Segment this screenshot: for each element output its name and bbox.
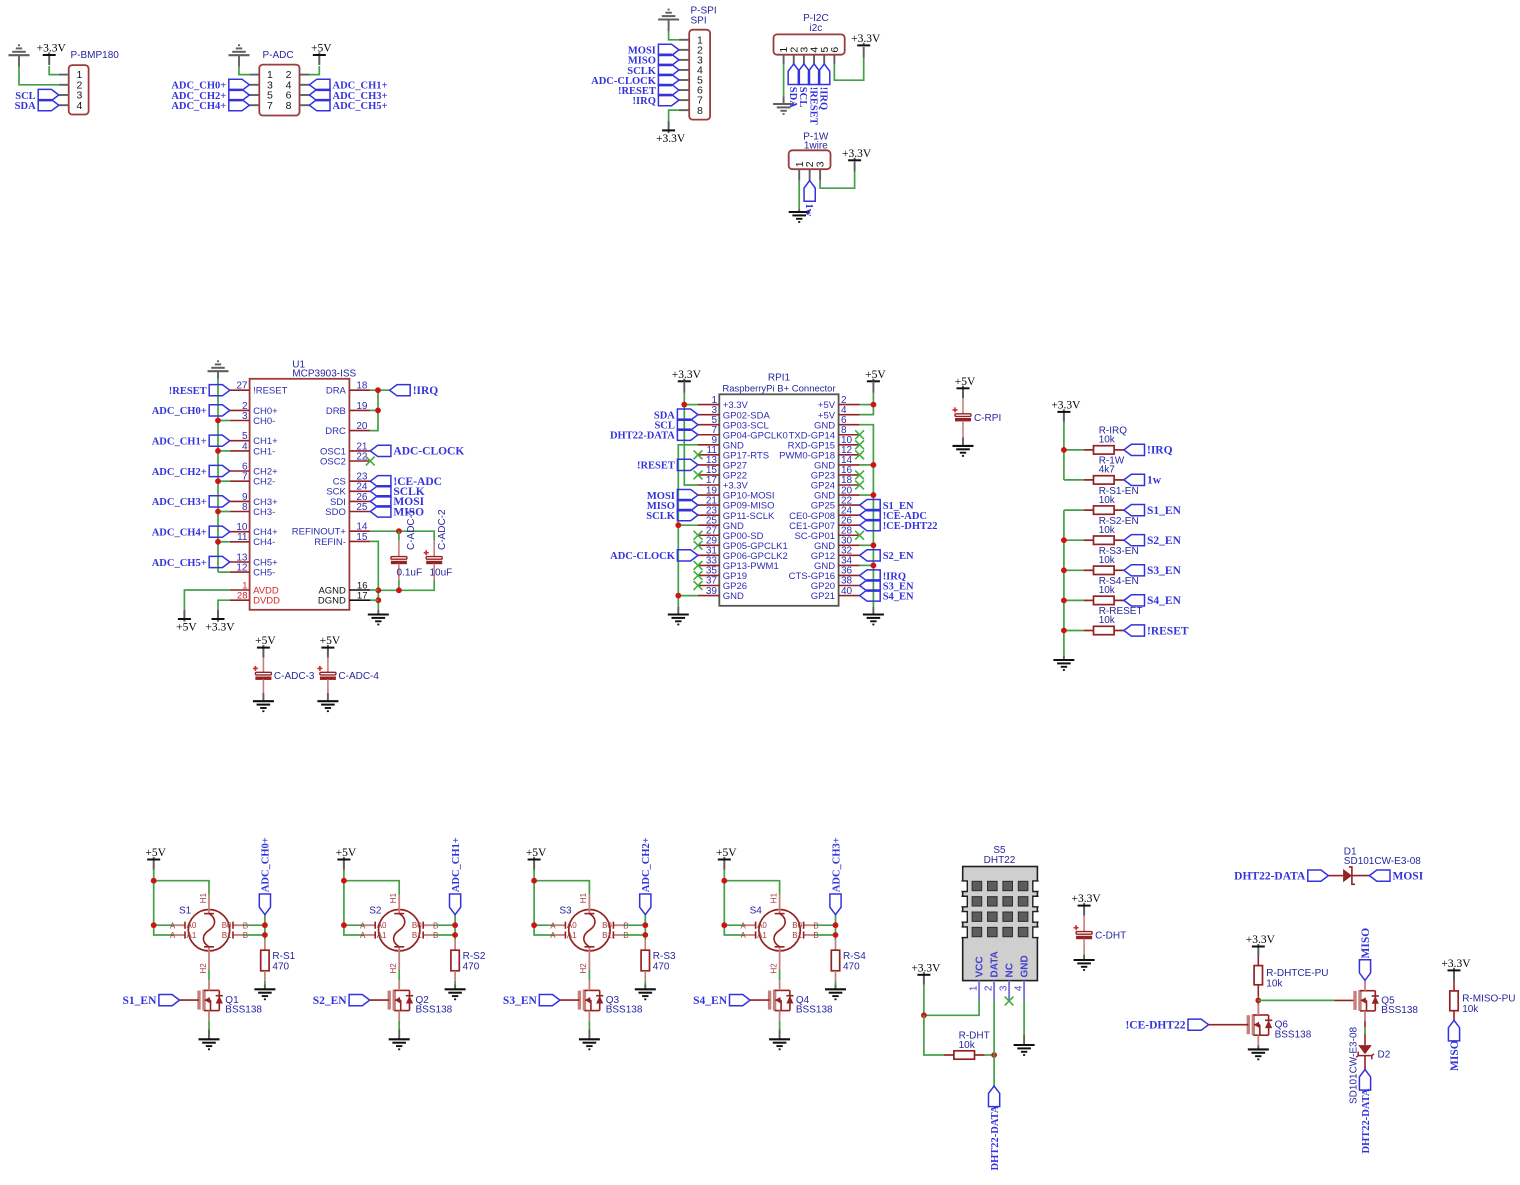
net label DHT22-DATA	[610, 429, 698, 441]
net label MISO	[1448, 1020, 1459, 1041]
pin 13 CH5+	[230, 552, 278, 568]
junction	[871, 492, 877, 498]
net label !IRQ	[390, 385, 439, 397]
svg-text:ADC_CH2+: ADC_CH2+	[641, 837, 652, 892]
junction	[151, 878, 157, 884]
wire	[262, 679, 264, 693]
junction	[675, 522, 681, 528]
svg-text:R-S2: R-S2	[463, 951, 486, 962]
wire	[860, 564, 874, 566]
wire	[1023, 1000, 1025, 1035]
wire	[815, 934, 835, 936]
wire	[1063, 655, 1065, 660]
wire	[344, 881, 364, 935]
wire	[19, 66, 59, 85]
net label SDA	[788, 64, 799, 85]
power +3.3V	[1072, 893, 1102, 915]
junction	[675, 593, 681, 599]
wire	[1258, 999, 1334, 1001]
wire	[1364, 1056, 1366, 1070]
wire	[454, 985, 456, 990]
svg-text:+3.3V: +3.3V	[842, 148, 872, 160]
wire	[588, 1021, 590, 1030]
svg-text:CH5-: CH5-	[253, 568, 275, 579]
svg-text:1w: 1w	[1147, 475, 1162, 487]
net label DHT22-DATA	[1359, 1070, 1370, 1091]
junction	[721, 922, 727, 928]
wire	[433, 564, 435, 581]
wire	[779, 1021, 781, 1030]
pin 3 NC	[998, 963, 1015, 1000]
wire	[678, 445, 698, 607]
svg-text:ADC_CH5+: ADC_CH5+	[152, 558, 207, 569]
svg-text:A: A	[360, 921, 366, 930]
svg-text:+5V: +5V	[320, 635, 341, 647]
pin 12 CH5-	[230, 563, 275, 579]
power +5V	[865, 369, 886, 381]
pin 8 TXD-GP14	[789, 425, 860, 441]
svg-text:ADC_CH4+: ADC_CH4+	[171, 101, 226, 112]
svg-text:ADC_CH3+: ADC_CH3+	[152, 497, 207, 508]
pin 8 CH3-	[230, 502, 275, 518]
svg-text:+5V: +5V	[336, 847, 357, 859]
power +3.3V	[1441, 958, 1471, 980]
svg-text:DHT22: DHT22	[984, 855, 1016, 866]
svg-text:A0: A0	[187, 921, 197, 930]
svg-text:S4: S4	[750, 906, 763, 917]
pin 1 AVDD	[230, 580, 279, 596]
pin 27 GP00-SD	[698, 525, 764, 541]
wire	[783, 96, 785, 104]
svg-text:OSC2: OSC2	[320, 456, 346, 467]
junction	[151, 922, 157, 928]
junction	[215, 448, 221, 454]
junction	[871, 542, 877, 548]
pin 33 GP13-PWM1	[698, 556, 779, 572]
wire	[1335, 999, 1356, 1001]
wire	[208, 970, 210, 981]
pin 16 GP23	[811, 465, 860, 481]
wire	[534, 881, 589, 895]
svg-text:P-ADC: P-ADC	[262, 50, 293, 61]
svg-text:2: 2	[983, 985, 994, 991]
pin 28 DVDD	[230, 591, 280, 607]
svg-text:+5V: +5V	[955, 376, 976, 388]
wire	[1064, 479, 1083, 481]
svg-text:CH0-: CH0-	[253, 416, 275, 427]
junction	[1061, 567, 1067, 573]
svg-text:A1: A1	[187, 931, 197, 940]
pin 14 GND	[814, 455, 860, 471]
junction	[721, 878, 727, 884]
svg-text:SDA: SDA	[15, 101, 36, 112]
wire	[370, 389, 389, 391]
wire	[49, 66, 59, 75]
wire	[154, 881, 174, 935]
svg-text:R-S3: R-S3	[653, 951, 676, 962]
wire	[783, 64, 785, 96]
wire	[683, 381, 685, 392]
svg-text:C-ADC-3: C-ADC-3	[274, 671, 315, 682]
wire	[684, 404, 698, 406]
net label ADC_CH3+	[830, 894, 841, 915]
svg-text:C-ADC-1: C-ADC-1	[406, 509, 417, 550]
junction	[642, 922, 648, 928]
svg-text:!IRQ: !IRQ	[633, 96, 656, 107]
svg-text:S1: S1	[179, 906, 192, 917]
power +5V	[336, 847, 357, 869]
svg-text:i2c: i2c	[810, 23, 823, 34]
transistor Q6	[1248, 1005, 1311, 1046]
svg-text:RaspberryPi B+ Connector: RaspberryPi B+ Connector	[722, 384, 835, 395]
svg-text:+5V: +5V	[865, 369, 886, 381]
svg-text:C-ADC-4: C-ADC-4	[338, 671, 379, 682]
svg-text:ADC_CH0+: ADC_CH0+	[152, 406, 207, 417]
net label ADC_CH4+	[152, 526, 230, 538]
transistor Q2	[389, 980, 452, 1021]
transistor Q3	[579, 980, 642, 1021]
svg-text:B1: B1	[222, 931, 232, 940]
svg-text:+5V: +5V	[255, 635, 276, 647]
wire	[208, 1021, 210, 1030]
svg-text:+5V: +5V	[176, 622, 197, 634]
pin 24 SCK	[326, 482, 370, 498]
wire	[863, 47, 865, 58]
wire	[378, 581, 434, 591]
svg-text:10k: 10k	[1099, 435, 1116, 446]
svg-text:CH1-: CH1-	[253, 446, 275, 457]
net label !IRQ	[819, 64, 830, 85]
svg-text:!RESET: !RESET	[637, 461, 675, 472]
junction	[1061, 628, 1067, 634]
wire	[1064, 509, 1083, 511]
svg-text:S4_EN: S4_EN	[693, 995, 728, 1007]
resistor R-S3	[641, 940, 649, 980]
svg-text:10k: 10k	[959, 1040, 976, 1051]
resistor R-1W	[1083, 476, 1124, 484]
svg-text:BSS138: BSS138	[416, 1005, 453, 1016]
power +5V	[311, 43, 332, 65]
net label SDA	[15, 100, 59, 112]
svg-text:39: 39	[706, 586, 718, 597]
svg-text:+3.3V: +3.3V	[1441, 958, 1471, 970]
net label ADC_CH1+	[152, 435, 230, 447]
wire	[820, 171, 855, 189]
junction	[341, 878, 347, 884]
pin 39 GND	[698, 586, 744, 602]
pin 11 GP17-RTS	[698, 445, 769, 461]
svg-text:DRB: DRB	[326, 406, 346, 417]
svg-text:H1: H1	[389, 892, 398, 903]
junction	[341, 922, 347, 928]
wire	[398, 970, 400, 981]
no-connect	[855, 440, 864, 449]
svg-text:+3.3V: +3.3V	[1051, 400, 1081, 412]
resistor R-DHTCE-PU	[1254, 966, 1262, 985]
svg-text:+5V: +5V	[311, 43, 332, 55]
no-connect	[366, 457, 375, 466]
wire	[1064, 599, 1083, 601]
wire	[262, 658, 264, 672]
wire	[180, 999, 200, 1001]
wire	[750, 999, 770, 1001]
net label DHT22-DATA	[989, 1086, 1000, 1107]
net label !CE-DHT22	[1125, 1019, 1208, 1031]
pin 20 DRC	[325, 421, 370, 437]
net label S1_EN	[123, 995, 180, 1007]
svg-text:VCC: VCC	[975, 956, 986, 977]
junction	[1255, 998, 1261, 1004]
wire	[454, 915, 456, 941]
ground	[1014, 1045, 1035, 1055]
net label SCLK	[627, 64, 679, 76]
wire	[218, 480, 230, 482]
no-connect	[694, 581, 703, 590]
pin 23 CS	[333, 472, 371, 488]
wire	[860, 464, 874, 466]
ground	[229, 45, 250, 55]
net label SCL	[654, 419, 698, 431]
wire	[454, 981, 456, 985]
pin 40 GP21	[811, 586, 860, 602]
svg-text:DHT22-DATA: DHT22-DATA	[990, 1105, 1001, 1170]
wire	[1352, 875, 1370, 877]
svg-text:DHT22-DATA: DHT22-DATA	[1234, 870, 1306, 882]
svg-text:1wire: 1wire	[804, 141, 828, 152]
pin 26 SDI	[330, 492, 370, 508]
switch S4	[740, 892, 818, 973]
net label MOSI	[370, 496, 424, 508]
wire	[798, 209, 800, 212]
wire	[1453, 980, 1455, 991]
svg-text:SD101CW-E3-08: SD101CW-E3-08	[1344, 856, 1422, 867]
svg-text:BSS138: BSS138	[606, 1005, 643, 1016]
wire	[327, 693, 329, 701]
svg-text:4: 4	[77, 100, 83, 112]
wire	[668, 20, 670, 31]
svg-text:D2: D2	[1378, 1050, 1391, 1061]
svg-text:8: 8	[697, 105, 703, 117]
power +5V	[955, 376, 976, 398]
power +5V	[526, 847, 547, 869]
wire	[264, 915, 266, 941]
svg-text:28: 28	[237, 591, 248, 602]
pin 2 +5V	[818, 395, 860, 411]
wire	[724, 924, 744, 926]
resistor R-S2	[451, 940, 459, 980]
pin 20 GND	[814, 485, 860, 501]
pin 7 CH2-	[230, 472, 275, 488]
resistor R-IRQ	[1083, 446, 1124, 454]
svg-text:ADC_CH5+: ADC_CH5+	[333, 101, 388, 112]
wire	[860, 544, 874, 546]
wire	[924, 1015, 944, 1055]
wire	[218, 600, 230, 610]
junction	[871, 462, 877, 468]
pin 22 OSC2	[320, 451, 370, 467]
wire	[398, 531, 400, 540]
connector RPI1 RaspberryPi B+ body	[719, 373, 838, 606]
svg-text:3: 3	[815, 161, 827, 167]
svg-text:H1: H1	[769, 892, 778, 903]
power +3.3V	[37, 43, 67, 65]
svg-text:+3.3V: +3.3V	[672, 369, 702, 381]
wire	[1257, 1045, 1259, 1049]
net label MISO	[647, 500, 698, 512]
pin 7 GP04-GPCLK0	[698, 425, 788, 441]
net label S4_EN	[1124, 595, 1182, 607]
ground	[1053, 660, 1074, 670]
net label ADC_CH1+	[309, 79, 387, 91]
pin 37 GP26	[698, 576, 747, 592]
net label S2_EN	[1124, 535, 1182, 547]
svg-text:10k: 10k	[1266, 978, 1283, 989]
wire	[678, 595, 698, 597]
pin 15 GP22	[698, 465, 747, 481]
no-connect	[694, 541, 703, 550]
svg-text:RPI1: RPI1	[768, 373, 791, 384]
wire	[217, 371, 219, 378]
wire	[1064, 569, 1083, 571]
svg-text:BSS138: BSS138	[1275, 1029, 1312, 1040]
svg-text:ADC_CH1+: ADC_CH1+	[152, 437, 207, 448]
net label !RESET	[637, 459, 698, 471]
wire	[398, 564, 400, 581]
pin 3 GP02-SDA	[698, 405, 770, 421]
pin 10 CH4+	[230, 522, 278, 538]
ground	[825, 989, 846, 999]
pin 23 GP11-SCLK	[698, 505, 775, 521]
junction	[642, 932, 648, 938]
power +5V	[716, 847, 737, 869]
net label DHT22-DATA	[1234, 870, 1328, 882]
junction	[215, 539, 221, 545]
svg-text:B1: B1	[412, 931, 422, 940]
pin 5 GP03-SCL	[698, 415, 769, 431]
wire	[208, 1030, 210, 1040]
svg-text:A1: A1	[377, 931, 387, 940]
svg-text:4k7: 4k7	[1099, 465, 1116, 476]
wire	[435, 924, 455, 926]
junction	[262, 922, 268, 928]
net label ADC_CH0+	[171, 79, 249, 91]
svg-text:+5V: +5V	[716, 847, 737, 859]
power +3.3V	[672, 369, 702, 381]
pin 4 CH1-	[230, 441, 275, 457]
svg-text:A: A	[550, 921, 556, 930]
junction	[452, 932, 458, 938]
wire	[218, 571, 230, 573]
net label ADC_CH0+	[152, 405, 230, 417]
wire	[835, 915, 837, 941]
wire	[1064, 539, 1083, 541]
svg-text:DHT22-DATA: DHT22-DATA	[1361, 1088, 1372, 1153]
pin 21 GP09-MISO	[698, 495, 775, 511]
wire	[154, 924, 174, 926]
svg-text:S4_EN: S4_EN	[1147, 595, 1182, 607]
svg-text:470: 470	[463, 962, 480, 973]
ground	[1074, 960, 1095, 970]
net label ADC-CLOCK	[591, 74, 679, 86]
resistor R-RESET	[1083, 626, 1124, 634]
svg-text:10k: 10k	[1099, 525, 1116, 536]
wire	[588, 1030, 590, 1040]
wire	[1328, 875, 1343, 877]
no-connect	[694, 531, 703, 540]
pin 17 DGND	[318, 591, 370, 607]
svg-text:10k: 10k	[1462, 1004, 1479, 1015]
net label !CE-ADC	[370, 476, 442, 488]
svg-text:H2: H2	[389, 963, 398, 974]
wire	[1257, 1005, 1259, 1015]
resistor R-S1	[261, 940, 269, 980]
svg-text:MISO: MISO	[1360, 928, 1372, 959]
junction	[375, 408, 381, 414]
pin 24 CE0-GP08	[789, 505, 859, 521]
net label MISO	[370, 506, 424, 518]
svg-text:470: 470	[272, 962, 289, 973]
svg-text:+3.3V: +3.3V	[851, 33, 881, 45]
capacitor C-DHT	[1074, 925, 1093, 939]
wire	[262, 693, 264, 701]
svg-text:10k: 10k	[1099, 555, 1116, 566]
svg-text:MOSI: MOSI	[1393, 870, 1424, 882]
pin 9 CH3+	[230, 492, 278, 508]
no-connect	[855, 531, 864, 540]
svg-text:B0: B0	[222, 921, 232, 930]
svg-text:MCP3903-ISS: MCP3903-ISS	[292, 369, 356, 380]
svg-text:17: 17	[357, 591, 368, 602]
svg-text:S2_EN: S2_EN	[883, 551, 914, 562]
wire	[370, 541, 378, 609]
junction	[991, 1052, 997, 1058]
wire	[370, 390, 378, 430]
svg-text:A: A	[170, 921, 176, 930]
net label !RESET	[1124, 625, 1189, 637]
wire	[923, 985, 925, 1016]
wire	[962, 438, 964, 446]
svg-text:+3.3V: +3.3V	[656, 133, 686, 145]
pin 13 GP27	[698, 455, 747, 471]
wire	[1023, 1035, 1025, 1045]
pin 3 CH0-	[230, 411, 275, 427]
resistor R-MISO-PU	[1450, 991, 1458, 1011]
junction	[833, 922, 839, 928]
pin 19 DRB	[326, 401, 370, 417]
wire	[309, 66, 319, 75]
wire	[1064, 449, 1083, 451]
wire	[370, 589, 378, 591]
junction	[833, 932, 839, 938]
wire	[344, 881, 399, 895]
svg-text:4: 4	[242, 441, 248, 452]
svg-text:7: 7	[242, 472, 248, 483]
ground	[579, 1039, 600, 1049]
svg-text:A0: A0	[757, 921, 767, 930]
power +3.3V	[1246, 934, 1276, 956]
power +3.3V	[911, 962, 941, 984]
junction	[921, 1012, 927, 1018]
net label ADC_CH0+	[259, 894, 270, 915]
svg-text:ADC-CLOCK: ADC-CLOCK	[610, 551, 676, 562]
power +3.3V	[1051, 400, 1081, 422]
svg-text:6: 6	[829, 47, 841, 53]
pin 28 SC-GP01	[794, 525, 859, 541]
net label ADC_CH4+	[171, 100, 249, 112]
svg-text:DRC: DRC	[325, 426, 346, 437]
pin 15 REFIN-	[314, 532, 370, 548]
wire	[184, 590, 229, 611]
